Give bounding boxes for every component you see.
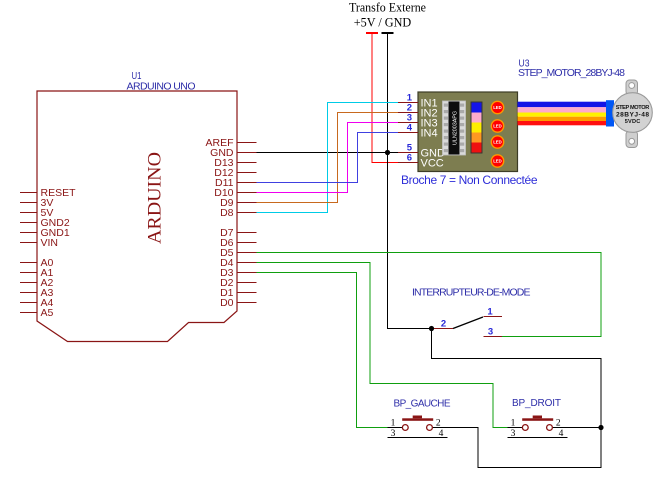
pin D4 <box>220 257 256 269</box>
svg-text:INTERRUPTEUR-DE-MODE: INTERRUPTEUR-DE-MODE <box>412 287 531 299</box>
pin A3 <box>20 287 54 299</box>
pin A4 <box>20 297 54 309</box>
motor mounting tab top <box>626 80 638 95</box>
wire D5 green to switch pin3 <box>257 253 602 337</box>
wire D4 green to BP_DROIT pin1 <box>257 263 508 428</box>
svg-text:2: 2 <box>436 419 441 429</box>
svg-text:2: 2 <box>556 419 561 429</box>
button BP_DROIT <box>508 416 568 439</box>
svg-text:6: 6 <box>407 153 412 164</box>
switch SW1 lever <box>453 317 483 329</box>
wire D9 orange to IN2 <box>257 113 399 203</box>
LED D1 <box>491 101 503 113</box>
pin AREF <box>205 137 256 149</box>
switch SW1 pin 1 stub <box>484 307 503 318</box>
svg-text:D0: D0 <box>220 297 234 309</box>
driver board ULN2003 module body <box>418 92 518 172</box>
pin GND1 <box>20 227 70 239</box>
pin D7 <box>220 227 256 239</box>
pin D5 <box>220 247 256 259</box>
pin D2 <box>220 277 256 289</box>
svg-text:ARDUINO UNO: ARDUINO UNO <box>127 81 196 93</box>
svg-text:STEP_MOTOR_28BYJ-48: STEP_MOTOR_28BYJ-48 <box>518 67 625 79</box>
wire BP_DROIT pin2 to junction <box>568 427 602 429</box>
wire GND horizontal Arduino GND to pin5 <box>257 152 399 154</box>
svg-text:+5V / GND: +5V / GND <box>354 15 412 30</box>
svg-text:BP_DROIT: BP_DROIT <box>512 398 561 409</box>
junction bottom bus node <box>598 425 603 430</box>
svg-text:1: 1 <box>511 419 516 429</box>
wire GND black vertical to switch <box>388 33 432 329</box>
svg-text:A5: A5 <box>41 307 54 319</box>
svg-text:D8: D8 <box>220 207 234 219</box>
svg-text:LED: LED <box>493 140 502 145</box>
pin D0 <box>220 297 256 309</box>
pin 6 VCC stub <box>398 153 418 164</box>
button BP_GAUCHE <box>388 416 448 439</box>
svg-text:1: 1 <box>487 307 493 318</box>
wire D8 cyan to IN1 <box>257 103 399 213</box>
pin D10 <box>214 187 256 199</box>
svg-text:4: 4 <box>407 123 413 134</box>
pin D12 <box>214 167 256 179</box>
pin 3 IN3 stub <box>398 113 418 124</box>
svg-text:VIN: VIN <box>41 237 59 249</box>
switch SW1 pin 2 stub <box>434 319 454 330</box>
LED D3 <box>491 136 503 148</box>
svg-text:3: 3 <box>488 327 493 338</box>
pin RESET <box>20 187 76 199</box>
svg-text:LED: LED <box>493 105 502 110</box>
motor mounting tab bottom <box>626 131 638 148</box>
pin D8 <box>220 207 256 219</box>
power terminal +5V <box>366 32 378 34</box>
svg-text:Broche 7 = Non Connectée: Broche 7 = Non Connectée <box>401 173 538 187</box>
wire D11 blue to IN4 <box>257 133 399 183</box>
svg-text:IN4: IN4 <box>421 128 438 140</box>
LED D2 <box>491 120 503 132</box>
pin 1 IN1 stub <box>398 93 418 104</box>
pin 4 IN4 stub <box>398 123 418 134</box>
pin GND2 <box>20 217 70 229</box>
pin D9 <box>220 197 256 209</box>
ribbon wire orange <box>518 117 607 121</box>
ribbon wire blue <box>518 102 607 108</box>
IC U1 ARDUINO UNO body <box>37 91 237 342</box>
pin D1 <box>220 287 256 299</box>
svg-text:VCC: VCC <box>421 158 444 170</box>
svg-text:5VDC: 5VDC <box>625 119 641 125</box>
IC U2 ULN2003 package <box>443 101 466 155</box>
power terminal GND <box>382 32 394 34</box>
pin D11 <box>215 177 256 189</box>
LED D4 <box>491 155 503 167</box>
pin D6 <box>220 237 256 249</box>
pin A5 <box>20 307 54 319</box>
svg-text:LED: LED <box>493 124 502 129</box>
svg-text:ULN2003APG: ULN2003APG <box>453 111 459 145</box>
svg-text:1: 1 <box>391 419 396 429</box>
wire +5V red to VCC pin6 <box>372 33 398 163</box>
svg-text:2: 2 <box>441 319 446 330</box>
wire switch pin2 down to bottom bus <box>432 329 602 428</box>
color code squares block <box>471 102 482 153</box>
pin A1 <box>20 267 54 279</box>
svg-text:Transfo Externe: Transfo Externe <box>349 0 426 15</box>
svg-text:28BYJ-48: 28BYJ-48 <box>616 112 649 119</box>
pin 5 GND stub <box>398 143 418 154</box>
svg-text:STEP MOTOR: STEP MOTOR <box>616 105 650 111</box>
pin 5V <box>20 207 53 219</box>
wire D10 magenta to IN3 <box>257 123 399 193</box>
ribbon wire pink <box>518 107 607 112</box>
pin D13 <box>214 157 256 169</box>
junction switch pin2 node <box>429 326 434 331</box>
svg-text:BP_GAUCHE: BP_GAUCHE <box>394 399 451 410</box>
wire D3 green to BP_GAUCHE pin1 <box>257 273 388 428</box>
motor connector <box>606 100 614 126</box>
pin A2 <box>20 277 54 289</box>
svg-text:LED: LED <box>493 159 502 164</box>
ribbon wire red <box>518 121 607 125</box>
wire BP_GAUCHE pin2 bottom loop <box>448 428 602 468</box>
pin GND <box>210 147 256 159</box>
pin D3 <box>220 267 256 279</box>
pin 3V <box>20 197 53 209</box>
svg-text:ARDUINO: ARDUINO <box>145 152 166 244</box>
switch SW1 pin 3 stub <box>484 327 503 338</box>
pin A0 <box>20 257 54 269</box>
pin VIN <box>20 237 58 249</box>
ribbon wire yellow <box>518 113 607 117</box>
pin 2 IN2 stub <box>398 103 418 114</box>
junction GND node <box>385 150 390 155</box>
motor U3 body <box>613 93 653 133</box>
